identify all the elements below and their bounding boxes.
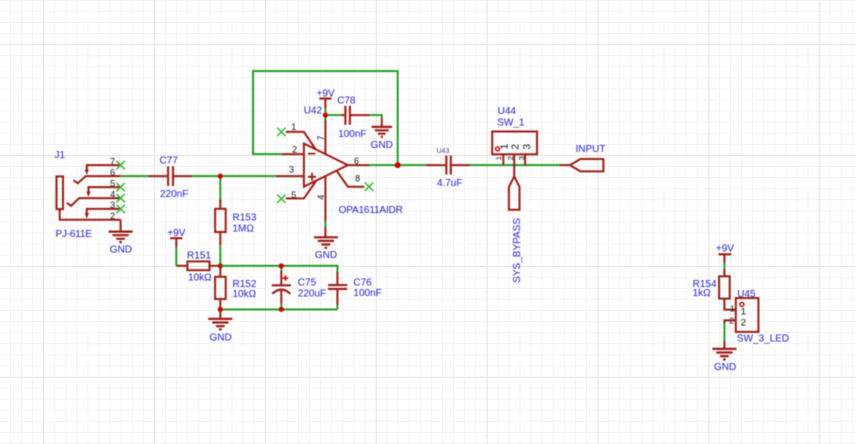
svg-text:C77: C77 [160,156,179,167]
R153 top lead [219,200,221,209]
C75 top lead [280,266,282,271]
J1 pin 3 line with switch arm [87,209,121,214]
svg-text:6: 6 [110,167,115,177]
svg-text:5: 5 [291,190,296,200]
ground bars [712,349,736,360]
no-connect X on J1 pin 4 [116,194,125,202]
svg-text:GND: GND [315,250,337,261]
svg-text:2: 2 [110,211,115,221]
no-connect X on pin 5 [277,195,286,203]
+9V bar [319,97,331,99]
svg-text:3: 3 [110,200,115,210]
svg-text:INPUT: INPUT [576,144,606,155]
U42 pin 5 stub [286,181,316,198]
J1 body sleeve rectangle [57,176,64,209]
R153 bottom lead [219,232,221,245]
ground bars [314,237,338,248]
J1 pin 7 arrowhead [85,170,89,175]
U45 pin 2 stub [724,320,735,323]
svg-text:+9V: +9V [716,244,734,255]
svg-text:1kΩ: 1kΩ [693,288,712,299]
ground bars [109,232,133,243]
R154 bottom lead [724,299,735,310]
wire C77 to op-amp pin 3 [192,175,276,177]
C77 plates [168,166,173,186]
R152 top lead [219,266,221,277]
svg-text:100nF: 100nF [338,129,366,140]
wire U45 pin 2 to ground [723,324,725,342]
C75 bottom lead [280,290,282,304]
C78 right lead [351,114,370,116]
C78 left lead [341,114,344,116]
U42 pin 1 stub [286,132,316,149]
C75 curved bottom plate [272,290,290,294]
svg-text:R153: R153 [233,212,257,223]
svg-text:100nF: 100nF [353,288,381,299]
no-connect X on J1 pin 7 [116,161,125,169]
ground lead wire [120,220,122,232]
U42 triangle body [304,144,348,187]
svg-text:8: 8 [355,174,360,184]
svg-text:1: 1 [494,156,503,160]
svg-text:1: 1 [741,307,746,318]
no-connect X on pin 8 [365,183,374,191]
net flag INPUT [559,144,605,171]
U43 left lead [426,164,445,166]
R151 right lead [210,265,219,267]
svg-text:GND: GND [371,140,393,151]
wire +9V down to R151 [175,247,177,266]
junction dot at V+ node [323,113,328,118]
U45 body rectangle [736,298,759,332]
svg-text:3: 3 [517,156,526,160]
svg-text:2: 2 [510,144,521,150]
feedback wire loop (output to inverting input) [253,71,398,165]
J1 pin 3 arrowhead [85,213,89,218]
mid rail wire to C75/C76 [220,266,337,271]
svg-text:10kΩ: 10kΩ [188,273,212,284]
svg-text:2: 2 [292,144,297,154]
svg-text:10kΩ: 10kΩ [233,289,257,300]
C76 top lead [336,271,338,285]
junction dot C75 bottom [279,307,284,312]
capacitor C76 [328,271,382,305]
J1 pin 7 line with switch arm [87,165,121,170]
ground symbol below R152 [208,309,232,343]
ground symbol below J1 [109,220,133,256]
svg-text:GND: GND [110,245,132,256]
U42 minus sign (inverting input) [308,153,315,155]
resistor R154 [693,269,736,310]
R151 left lead [176,265,187,267]
U44 pin 1 stub [502,154,504,165]
wire C78 to ground [370,115,382,118]
power flag +9V (right) [716,244,734,263]
U42 pin 3 stub [276,175,304,177]
power flag +9V (op-amp) [317,88,335,109]
op-amp U42 OPA1611AIDR [276,106,403,221]
+9V bar [170,237,182,239]
+9V stub [723,254,725,263]
svg-text:5: 5 [110,178,115,188]
capacitor C78 [337,96,369,140]
ground lead [219,309,221,319]
svg-text:220uF: 220uF [298,288,326,299]
wire U43 to U44 and INPUT [470,164,560,166]
switch U45 SW_3_LED [724,289,789,344]
resistor R151 [176,251,218,284]
svg-text:4: 4 [110,189,115,199]
svg-text:R151: R151 [187,251,211,262]
junction dot C75 top [279,263,284,268]
svg-text:SW_3_LED: SW_3_LED [737,334,789,345]
svg-text:1: 1 [499,143,510,149]
svg-text:1: 1 [291,122,296,132]
U44 body rectangle [492,132,537,155]
no-connect X on J1 pin 5 [116,183,125,191]
+9V bar [719,253,732,255]
svg-text:6: 6 [354,156,359,166]
U42 pin 8 stub [337,171,365,187]
junction dot R152 bottom [218,307,223,312]
ground bars [372,127,392,137]
svg-text:1MΩ: 1MΩ [233,224,255,235]
U43 plates [446,156,451,175]
ground lead [324,227,326,237]
R151 body [187,261,209,270]
svg-text:4.7uF: 4.7uF [437,178,463,189]
U42 plus sign (non-inverting input) [308,173,316,181]
svg-text:U44: U44 [498,106,517,117]
svg-text:PJ-611E: PJ-611E [56,229,93,240]
SYS_BYPASS flag pentagon [509,176,520,209]
no-connect X on pin 1 [277,128,286,136]
svg-text:GND: GND [209,332,231,343]
ground lead [723,342,725,349]
capacitor C75 (electrolytic) [272,266,326,310]
junction dot output/feedback [395,162,401,168]
resistor R153 [215,200,257,246]
U44 pin 3 stub [524,154,526,165]
INPUT lead [559,164,569,166]
U42 pin 7 stub (V+) [324,120,326,154]
wire +9V to R154 [723,263,725,269]
R154 top lead [723,269,725,276]
svg-text:1: 1 [730,303,735,313]
ground symbol right of C78 [371,118,393,151]
svg-text:SW_1: SW_1 [497,117,525,128]
connector J1 (PJ-611E audio jack) [55,150,125,240]
J1 pin 5 line with switch arm [89,187,121,192]
ground lead [381,118,383,127]
svg-text:2: 2 [506,156,515,160]
U42 pin 2 stub [282,153,304,155]
svg-text:C78: C78 [337,96,356,107]
C76 plates [328,285,347,289]
junction dot R151/R153/R152 [218,263,223,268]
wire junction down to R153 [219,176,221,201]
C76 bottom lead [336,289,338,305]
svg-text:3: 3 [522,144,533,150]
J1 pin 4 ring contact [67,198,121,206]
svg-text:SYS_BYPASS: SYS_BYPASS [512,218,523,283]
U44 pin 2 stub [513,154,515,176]
capacitor U43 [426,148,469,189]
U42 pin 4 stub (V-) [324,176,326,221]
switch U44 SW_1 [492,106,537,177]
svg-text:U43: U43 [437,148,450,155]
svg-text:GND: GND [714,362,736,373]
capacitor C77 [149,156,193,201]
C77 left lead [149,175,168,177]
no-connect X on J1 pin 3 [116,205,125,213]
svg-text:U42: U42 [304,106,323,117]
wire R153 to R151/R152 node [219,245,221,266]
+9V stub [175,238,177,247]
svg-text:J1: J1 [55,150,66,161]
svg-text:220nF: 220nF [160,189,188,200]
R154 body [719,276,730,298]
net flag SYS_BYPASS [509,176,523,282]
R152 body [215,277,226,299]
svg-text:2: 2 [741,317,746,328]
ground bars [208,319,232,330]
R153 body [215,209,226,232]
svg-text:7: 7 [110,156,115,166]
resistor R152 [215,266,257,310]
output wire op-amp to U43 [369,164,426,166]
svg-text:C76: C76 [353,278,372,289]
R152 bottom lead [219,299,221,309]
C78 plates [345,106,350,125]
J1 pin 5 arrowhead [86,192,90,197]
svg-text:7: 7 [316,135,326,140]
svg-text:3: 3 [289,165,294,175]
wire J1 pin6 to C77 [121,175,149,177]
U43 right lead [452,164,470,166]
C75 top plate [272,284,291,286]
INPUT flag pentagon [570,159,604,171]
power flag +9V (left) [167,228,185,247]
U42 pin 6 stub (output) [348,164,369,166]
ground symbol below op-amp [314,227,338,261]
svg-text:OPA1611AIDR: OPA1611AIDR [339,205,403,216]
wire op-amp pin 4 to ground [324,221,326,227]
svg-text:C75: C75 [298,278,317,289]
wire +9V to pin7/C78 node [325,109,341,120]
bottom rail wire R152/C75/C76 [220,305,337,309]
+9V stub [324,99,326,109]
J1 pin 2 sleeve line [60,209,121,220]
C75 polarity plus sign [283,275,289,281]
J1 pin 6 tip contact [74,176,121,183]
U44 pin 1 indicator circle [496,147,500,151]
U45 pin 1 indicator circle [740,302,744,306]
ground symbol below U45 [712,342,736,374]
svg-text:4: 4 [316,195,326,200]
junction dot at C77/R153 node [218,174,223,179]
C77 right lead [174,175,192,177]
